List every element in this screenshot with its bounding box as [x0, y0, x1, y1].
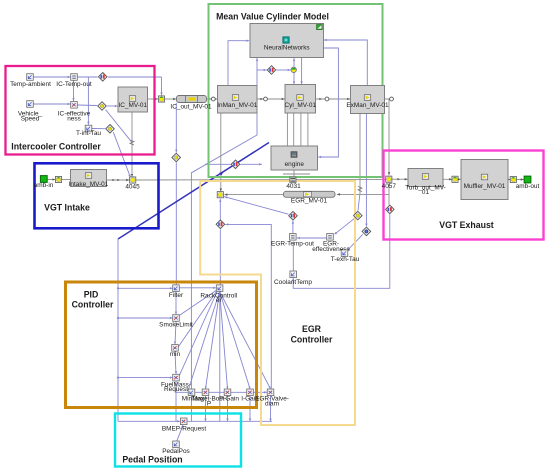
- diamond D5 under NeuralNetworks: [267, 66, 276, 75]
- wire InMan to Cyl with port: [257, 98, 285, 100]
- svg-text:Controller: Controller: [291, 334, 333, 344]
- svg-text:amb-out: amb-out: [516, 183, 540, 190]
- wire merge circle up to NeuralNetworks and down to Cyl: [293, 58, 295, 67]
- port circle between Cyl and ExMan: [325, 97, 329, 101]
- svg-text:T-int-Tau: T-int-Tau: [76, 130, 101, 137]
- wire InMan right up to NeuralNetworks bottom: [256, 58, 258, 85]
- diamond D9 above EGR-effectiveness: [354, 211, 363, 220]
- wire Vehicle_Speed to IC-effectiveness: [34, 103, 71, 105]
- tag EGR-Valve-diam: [255, 389, 289, 407]
- block ExMan_MV-01: [346, 86, 389, 114]
- svg-text:Filter: Filter: [169, 292, 184, 299]
- diamond D7 below EGR sum: [216, 220, 225, 229]
- wire main row y=99 IC_MV-01 to sum: [148, 98, 159, 100]
- tag SmokeLimit: [159, 315, 193, 329]
- diamond D8 above EGR-Temp-out: [289, 211, 298, 220]
- diamond D2 near IC-effectiveness: [98, 102, 107, 111]
- wire gain blocks down to pedal row: [205, 396, 207, 422]
- wire diamond diagonal to 4045: [113, 132, 130, 177]
- wire Cyl to ExMan with port: [316, 98, 351, 100]
- wire SmokeLimit diagonal to RackController: [179, 290, 217, 316]
- region box: VGT Exhaust (magenta): [384, 151, 544, 240]
- diamond D3 near T-int-Tau: [106, 125, 115, 134]
- sum after Muffler: [510, 176, 516, 182]
- block engine: [271, 146, 318, 170]
- sum 4057: [382, 176, 397, 190]
- wire Filter chain down to SmokeLimit min FuelMass: [175, 292, 177, 315]
- svg-text:4045: 4045: [125, 183, 140, 190]
- wire vertical down to T-int-Tau: [87, 77, 89, 125]
- wire IC_MV-01 bottom down to 4045 with break: [131, 112, 133, 177]
- diamond D1 near IC-Temp-out: [98, 73, 107, 82]
- svg-text:Temp-ambient: Temp-ambient: [10, 81, 51, 88]
- tag FuelMass-Request: [161, 374, 191, 393]
- tag T-int-Tau: [76, 125, 101, 137]
- wire min diagonal to RackController: [178, 291, 217, 347]
- wire Temp-ambient to IC-Temp-out: [34, 76, 71, 78]
- svg-text:01: 01: [422, 189, 430, 196]
- region box: VGT Intake (blue): [35, 163, 159, 228]
- svg-text:ExMan_MV-01: ExMan_MV-01: [346, 102, 389, 109]
- wire RackController fan to gain blocks: [188, 292, 220, 392]
- wire pedal row horizontal to BMEP-Request: [118, 420, 272, 422]
- svg-text:Intake_MV-01: Intake_MV-01: [69, 181, 109, 188]
- wire sum to Intake_MV-01: [62, 179, 71, 181]
- tag Target-Bost-P: [191, 389, 226, 407]
- tag RackController: [200, 285, 237, 304]
- svg-text:Intercooler Controller: Intercooler Controller: [11, 141, 101, 151]
- tag IC-Temp-out: [56, 74, 92, 89]
- port circle between InMan and Cyl: [264, 97, 268, 101]
- svg-text:4057: 4057: [382, 183, 397, 190]
- tag BMEP-Request: [162, 418, 207, 433]
- wire InMan up to NeuralNetworks input: [228, 41, 249, 85]
- wire IC_out bar to InMan with port: [207, 98, 218, 100]
- tag min: [170, 345, 181, 358]
- region box: EGR Controller (light yellow, L-shape): [200, 181, 355, 425]
- wire red diamond D7 up to EGR sum: [219, 199, 221, 220]
- svg-text:IC_MV-01: IC_MV-01: [118, 102, 147, 109]
- tag EGR-Temp-out: [271, 234, 314, 248]
- tag CoolantTemp: [274, 271, 312, 286]
- svg-text:EGR: EGR: [302, 324, 322, 334]
- svg-text:Speed: Speed: [21, 115, 40, 122]
- svg-text:er: er: [216, 297, 223, 304]
- wire EGR-effectiveness left to EGR-Temp-out: [297, 237, 328, 239]
- wire ExMan bottom down with break to diamond: [359, 114, 361, 194]
- svg-text:VGT Exhaust: VGT Exhaust: [439, 220, 494, 230]
- wire Muffler to sum to amb-out: [508, 179, 524, 181]
- svg-text:BMEP-Request: BMEP-Request: [162, 426, 207, 433]
- wire ExMan bottom down to diamond D10: [365, 114, 367, 227]
- svg-text:Muffler_MV-01: Muffler_MV-01: [464, 183, 506, 190]
- wire EGR_MV-01 bar out to 4057 branch: [337, 193, 389, 195]
- sum EGR: [217, 192, 223, 198]
- wire IC-effectiveness through diamond to IC_MV-01: [78, 104, 97, 107]
- svg-text:VGT Intake: VGT Intake: [44, 202, 90, 212]
- tag IC-effectiveness: [58, 102, 91, 123]
- svg-text:NeuralNetworks: NeuralNetworks: [264, 44, 310, 51]
- block InMan_MV-01: [217, 86, 257, 114]
- region box: Mean Value Cylinder Model (green): [209, 4, 383, 177]
- svg-text:IC-Temp-out: IC-Temp-out: [56, 81, 92, 88]
- diamond D4 above Filter: [172, 153, 181, 162]
- tag Filter: [169, 285, 184, 299]
- wire Cyl_MV-01 to engine verticals: [286, 113, 288, 146]
- wire EGR sum to EGR_MV-01 bar: [224, 194, 283, 196]
- tag PedalPos: [162, 441, 190, 455]
- svg-text:PID: PID: [84, 290, 99, 300]
- wire thick diagonal from PID up to engine: [118, 143, 269, 240]
- wire FuelMass diagonal to RackController: [179, 292, 217, 377]
- port circle between IC_out and InMan: [211, 97, 215, 101]
- wire T-int-Tau to diamond: [92, 128, 105, 130]
- wire diamond D9 to EGR-effectiveness: [335, 219, 355, 235]
- port circle after ExMan: [390, 97, 394, 101]
- diamond D6 left of engine: [231, 160, 240, 169]
- svg-text:4031: 4031: [286, 183, 301, 190]
- wire junction to diamond to merge under NeuralNetworks: [257, 69, 267, 71]
- diamond D10 above T-exh-Tau: [362, 227, 371, 236]
- tag MinMax: [182, 389, 205, 403]
- svg-text:T-exh-Tau: T-exh-Tau: [331, 256, 360, 263]
- wire red diamond D7 right and down to EGR-Valve-diam: [225, 224, 271, 388]
- wire vertical from Temp row down to IC-effectiveness: [73, 81, 75, 102]
- wire NeuralNetworks bottom down to Cyl direct: [301, 58, 303, 84]
- wire diamond D10 to T-exh-Tau: [348, 234, 363, 250]
- svg-text:IC_out_MV-01: IC_out_MV-01: [170, 103, 212, 110]
- tag T-exh-Tau: [331, 250, 360, 263]
- region box: PID Controller (orange): [66, 282, 257, 408]
- wire diamond D6 to engine: [205, 163, 231, 165]
- svg-text:P-Gain: P-Gain: [219, 396, 239, 403]
- sum after IC_MV-01: [158, 96, 164, 102]
- wire EGR-Temp-out up to diamond D8: [292, 221, 294, 234]
- wire ExMan top up and left into NeuralNetworks right: [324, 40, 367, 85]
- svg-text:ness: ness: [67, 115, 81, 122]
- svg-text:PedalPos: PedalPos: [162, 448, 190, 455]
- sum after amb-in: [55, 176, 61, 182]
- wire ExMan out down to 4057: [385, 99, 390, 175]
- wire InMan bottom via diagonal to long vertical down to pedal row: [191, 114, 257, 422]
- wire diamond D11 down and left to CoolantTemp: [293, 214, 390, 288]
- block IC_out_MV-01 (bar): [170, 96, 212, 111]
- wire diamond D8 diagonal up to EGR sum: [224, 197, 289, 215]
- block Muffler_MV-01: [461, 160, 508, 200]
- svg-text:min: min: [170, 351, 181, 358]
- wire engine bottom stub: [283, 173, 310, 175]
- wire IC_out bar down through diamond to Filter: [175, 103, 177, 153]
- svg-text:Controller: Controller: [72, 300, 114, 310]
- wire 4057 to Turb_out with arrows: [392, 178, 408, 180]
- tag I-Gain: [241, 389, 259, 403]
- region box: Intercooler Controller (pink): [6, 66, 155, 155]
- wire IC-Temp-out through diamond right and down to sum: [78, 76, 98, 78]
- block EGR_MV-01 (bar): [284, 191, 336, 204]
- svg-text:CoolantTemp: CoolantTemp: [274, 279, 312, 286]
- tag Vehicle_Speed: [18, 101, 43, 123]
- wire Turb_out to sum to Muffler: [443, 178, 461, 180]
- wire EGR-Temp-out down to CoolantTemp: [292, 241, 294, 270]
- svg-text:Cyl_MV-01: Cyl_MV-01: [285, 102, 317, 109]
- tag P-Gain: [219, 389, 239, 403]
- sum after Turb_out: [452, 176, 458, 182]
- svg-text:P: P: [207, 400, 211, 407]
- wire gains row horizontal: [176, 391, 267, 393]
- svg-text:Mean Value Cylinder Model: Mean Value Cylinder Model: [216, 12, 329, 22]
- wire diamond diagonal to vertical break point: [106, 110, 132, 142]
- tag Temp-ambient: [10, 74, 51, 89]
- wire sum to IC_out bar: [165, 98, 177, 100]
- svg-text:amb-in: amb-in: [34, 182, 54, 189]
- svg-text:diam: diam: [265, 400, 279, 407]
- merge circle under NeuralNetworks: [291, 67, 296, 72]
- wire NeuralNetworks right output down to engine: [318, 48, 338, 157]
- svg-text:Request: Request: [164, 386, 188, 393]
- block Intake_MV-01: [69, 170, 109, 188]
- input port amb-in: [34, 176, 54, 190]
- wire Intake_MV-01 to 4045: [107, 179, 130, 181]
- svg-text:Pedal Position: Pedal Position: [122, 454, 182, 464]
- block NeuralNetworks: [250, 24, 324, 58]
- svg-text:EGR_MV-01: EGR_MV-01: [291, 197, 328, 204]
- wire amb-in to sum: [47, 179, 55, 181]
- wire red diamond D7 down to RackController: [219, 230, 221, 285]
- diamond D11 below 4057: [386, 205, 395, 214]
- region box: Pedal Position (cyan): [115, 414, 241, 467]
- block IC_MV-01: [118, 87, 148, 112]
- block Cyl_MV-01: [285, 85, 317, 114]
- tag 4031 on long row: [286, 177, 301, 190]
- wire long row 4045 to 4057: [136, 178, 386, 181]
- wire PedalPos up to BMEP-Request: [177, 425, 183, 441]
- svg-text:EGR-Temp-out: EGR-Temp-out: [271, 241, 314, 248]
- sum 4045: [125, 177, 140, 191]
- svg-text:engine: engine: [285, 161, 305, 168]
- output port amb-out: [516, 176, 540, 190]
- wire Filter to RackController: [179, 287, 216, 289]
- wire InMan bottom down to EGR sum: [220, 114, 222, 192]
- tag EGR-effectiveness: [312, 234, 349, 253]
- svg-text:SmokeLimit: SmokeLimit: [159, 322, 193, 329]
- wire PID main vertical with branches: [117, 239, 119, 421]
- wire RackController vertical down to pedal row: [219, 292, 221, 422]
- block Turb_out_MV-01: [405, 169, 446, 197]
- svg-text:InMan_MV-01: InMan_MV-01: [217, 102, 257, 109]
